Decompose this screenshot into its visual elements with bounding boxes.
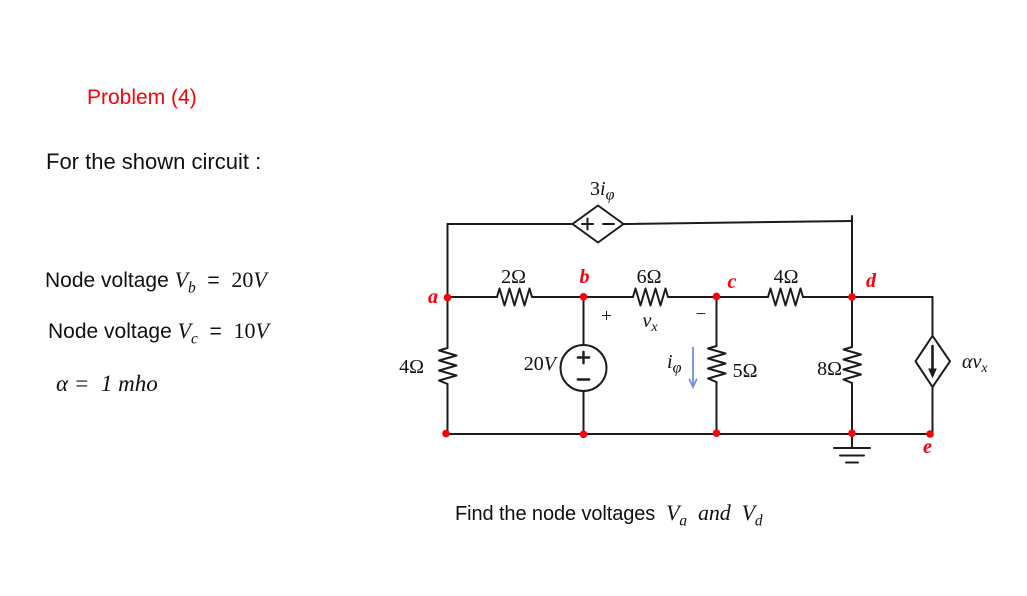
node d junction dot [848, 293, 856, 301]
svg-text:αvx: αvx [962, 351, 988, 376]
wire: 6ohm to 4ohm [668, 296, 768, 298]
resistor 8ohm (d-bottom) [844, 347, 862, 383]
wire: 2ohm to node c via b [532, 296, 633, 298]
bottom junction dot under c [713, 429, 721, 437]
given: node voltage Vb = 20V [45, 267, 267, 297]
svg-text:8Ω: 8Ω [817, 358, 842, 380]
wire: right vertical down to current source [932, 297, 934, 336]
current arrow i-phi (blue) [690, 348, 697, 388]
wire: 20V source to bottom rail [583, 391, 585, 434]
voltage source 20V circle [561, 345, 607, 391]
svg-text:d: d [866, 270, 877, 292]
node a junction dot [444, 294, 452, 302]
plus sign inside 20V source [578, 352, 589, 363]
wire: left vertical a down to 4ohm [447, 297, 449, 348]
resistor 5ohm (c-bottom) [708, 346, 726, 382]
wire: 5ohm to bottom rail [716, 382, 718, 434]
wire: 4ohm to bottom rail [447, 384, 449, 434]
svg-text:5Ω: 5Ω [733, 360, 758, 382]
minus sign inside 20V source [578, 378, 589, 380]
svg-text:+: + [601, 306, 612, 327]
bottom junction dot under b [580, 431, 588, 439]
svg-text:e: e [923, 436, 932, 458]
node e junction dot [926, 430, 934, 438]
plus sign inside 3i-phi source [582, 219, 593, 230]
minus sign inside 3i-phi source [603, 223, 614, 225]
svg-text:a: a [428, 286, 438, 308]
ground symbol [834, 434, 870, 463]
dependent voltage source 3i-phi diamond [573, 206, 624, 243]
bottom junction dot under d [848, 429, 856, 437]
resistor 4ohm (left, a-bottom) [439, 348, 457, 384]
wire: d down to 8ohm [851, 297, 853, 347]
wire: b down to 20V source [583, 297, 585, 345]
svg-text:iφ: iφ [667, 351, 682, 377]
caption: For the shown circuit [46, 149, 261, 175]
arrow inside current source [931, 346, 934, 370]
svg-text:2Ω: 2Ω [501, 266, 526, 288]
svg-text:4Ω: 4Ω [774, 266, 799, 288]
svg-text:4Ω: 4Ω [399, 356, 424, 378]
dependent current source alpha-vx diamond [916, 336, 951, 387]
svg-text:vx: vx [642, 310, 658, 335]
svg-text:6Ω: 6Ω [637, 266, 662, 288]
wire: right drop from top rail to node d [851, 216, 853, 297]
given: node voltage Vc = 10V [48, 318, 269, 348]
given: alpha = 1 mho [56, 371, 158, 397]
question: find node voltages Va and Vd [455, 500, 763, 530]
node b junction dot [580, 293, 588, 301]
wire: c down to 5ohm [716, 297, 718, 346]
svg-text:3iφ: 3iφ [590, 178, 615, 204]
wire: top rail right segment [624, 221, 853, 224]
title Problem (4) [87, 86, 197, 110]
wire: top rail left segment [448, 223, 573, 225]
svg-text:20V: 20V [524, 353, 559, 375]
resistor 4ohm (c-d) [768, 289, 803, 306]
wire: a to 2ohm [448, 296, 498, 298]
arrowhead of current source [928, 369, 937, 379]
resistor 2ohm (a-b) [497, 289, 532, 306]
wire: 8ohm to bottom rail [851, 383, 853, 434]
node c junction dot [713, 293, 721, 301]
svg-text:−: − [696, 304, 707, 325]
wire: bottom rail [446, 433, 931, 435]
svg-text:b: b [580, 266, 590, 288]
wire: current source to bottom rail [932, 387, 934, 435]
wire: top-left vertical (node a up to top rail) [447, 224, 449, 297]
wire: 4ohm to right corner [803, 296, 933, 298]
bottom-left junction dot [442, 430, 450, 438]
svg-text:c: c [728, 271, 737, 293]
resistor 6ohm (b-c) [633, 289, 668, 306]
